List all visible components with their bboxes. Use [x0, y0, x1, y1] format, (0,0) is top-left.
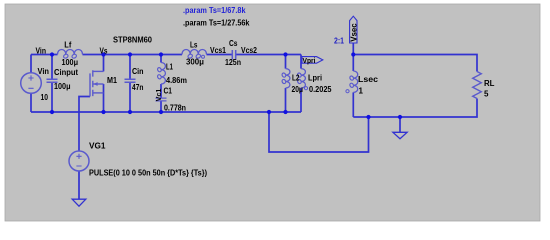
value 20u of L2	[292, 85, 304, 94]
svg-text:Vc1: Vc1	[154, 88, 163, 101]
svg-text:2:1: 2:1	[334, 37, 344, 46]
label L1	[166, 63, 173, 72]
label L2	[292, 74, 300, 83]
svg-text:Vin: Vin	[38, 67, 50, 76]
voltage source Vin	[21, 73, 42, 94]
svg-text:L2: L2	[292, 74, 300, 83]
resistor RL	[473, 72, 482, 99]
junction secondary ground	[398, 115, 402, 119]
node label Vcs1	[210, 46, 226, 55]
inductor L2	[281, 69, 290, 88]
wire secondary top rail	[353, 55, 477, 72]
wire Cin bottom lead	[129, 82, 131, 112]
junction L1 top	[159, 52, 163, 56]
wire step link primary gnd to secondary	[269, 112, 369, 152]
net flag Vpri	[302, 57, 323, 64]
label Lsec	[358, 75, 379, 84]
net flag Vsec	[350, 16, 357, 43]
junction C1 bottom	[159, 110, 163, 114]
value 1 of Lsec	[359, 87, 364, 96]
svg-text:Vin: Vin	[36, 47, 47, 56]
svg-text:.param Ts=1/27.56k: .param Ts=1/27.56k	[183, 18, 250, 27]
ground secondary	[393, 132, 407, 138]
junction M1 source bottom	[101, 110, 105, 114]
junction Cinput bottom	[50, 110, 54, 114]
wire ground stub secondary	[399, 117, 401, 132]
label VG1	[89, 141, 106, 150]
value 125n of Cs	[225, 58, 241, 67]
wire Vin source top lead	[30, 55, 32, 73]
wire C1 bottom lead	[160, 101, 162, 112]
label Lf	[64, 40, 71, 49]
node label Vc1 (rotated)	[154, 88, 163, 101]
wire M1 source lead	[103, 84, 105, 112]
label 2:1 turns ratio	[334, 37, 344, 46]
label Cinput	[54, 68, 78, 77]
junction L2 top	[283, 52, 287, 56]
value 5 of RL	[484, 89, 489, 98]
svg-text:Cin: Cin	[132, 67, 144, 76]
inductor L1	[157, 63, 166, 85]
svg-text:Cs: Cs	[229, 39, 238, 48]
inductor Lsec	[349, 71, 358, 92]
value 100u of Cinput	[54, 82, 71, 91]
wire top rail Vin to Lf	[31, 54, 58, 56]
wire Lsec bottom lead	[352, 92, 354, 117]
wire top rail Ls to Cs (node Vcs1)	[207, 54, 233, 56]
label Vpri	[303, 56, 316, 65]
svg-text:C1: C1	[164, 86, 173, 95]
value 300u of Ls	[186, 57, 204, 66]
label M1	[107, 76, 117, 85]
label C1	[164, 86, 173, 95]
wire L2 top lead	[285, 55, 287, 69]
svg-text:0.778n: 0.778n	[164, 103, 186, 112]
value 10 of Vin	[41, 93, 49, 102]
spice directive .param Ts=1/27.56k	[183, 18, 250, 27]
value 0.778n of C1	[164, 103, 186, 112]
wire L1 to C1	[160, 84, 162, 98]
svg-text:.param Ts=1/67.8k: .param Ts=1/67.8k	[183, 6, 246, 15]
wire Cinput bottom lead	[51, 82, 53, 112]
capacitor Cin	[125, 79, 136, 82]
junction Lsec top	[351, 52, 355, 56]
svg-text:20μ: 20μ	[292, 85, 304, 94]
svg-text:Vpri: Vpri	[303, 56, 316, 65]
junction node Vs at M1 drain	[101, 52, 105, 56]
voltage source VG1	[69, 151, 89, 171]
spice directive .param Ts=1/67.8k	[183, 6, 246, 15]
label Lpri	[308, 74, 322, 83]
junction Cin top	[128, 52, 132, 56]
svg-text:Ls: Ls	[190, 41, 198, 50]
value 100u of Lf	[62, 58, 79, 67]
label Cin	[132, 67, 144, 76]
phase dot of Lpri	[304, 87, 307, 90]
label RL	[484, 79, 495, 88]
svg-text:RL: RL	[484, 79, 495, 88]
inductor Lpri	[297, 69, 306, 88]
junction L2 bottom	[283, 110, 287, 114]
junction Cin bottom	[128, 110, 132, 114]
wire Vin source bottom lead	[30, 94, 32, 113]
node label Vin	[36, 47, 47, 56]
node label Vcs2	[241, 46, 257, 55]
wire M1 drain lead	[103, 55, 105, 72]
value 47n of Cin	[132, 83, 144, 92]
junction secondary link	[366, 115, 370, 119]
transistor M1 (NMOS)	[90, 70, 104, 96]
svg-text:125n: 125n	[225, 58, 241, 67]
svg-text:5: 5	[484, 89, 489, 98]
capacitor Cinput	[47, 79, 58, 82]
wire bottom rail left circuit	[31, 111, 301, 113]
wire top rail Cs to transformer (node Vcs2)	[236, 54, 301, 56]
capacitor C1	[156, 98, 167, 101]
svg-text:PULSE(0 10 0 50n 50n {D*Ts} {T: PULSE(0 10 0 50n 50n {D*Ts} {Ts})	[89, 168, 207, 177]
value 4.86m of L1	[166, 76, 187, 85]
value PULSE of VG1	[89, 168, 207, 177]
value 0.2025 of Lpri	[309, 85, 332, 94]
label Vsec (rotated)	[349, 23, 358, 42]
svg-text:100μ: 100μ	[54, 82, 71, 91]
wire Lpri top lead	[300, 55, 302, 69]
svg-text:Vcs1: Vcs1	[210, 46, 226, 55]
wire L1 top lead	[160, 55, 162, 63]
svg-text:1: 1	[359, 87, 364, 96]
wire Lsec top lead	[352, 55, 354, 72]
svg-text:Vsec: Vsec	[349, 23, 358, 42]
svg-text:47n: 47n	[132, 83, 144, 92]
label Vin source	[38, 67, 50, 76]
wire Lpri bottom lead	[300, 88, 302, 112]
label Ls	[190, 41, 198, 50]
svg-text:0.2025: 0.2025	[309, 85, 332, 94]
svg-text:100μ: 100μ	[62, 58, 79, 67]
wire secondary bottom rail	[353, 99, 477, 118]
wire Vsec flag stem	[352, 43, 354, 55]
wire VG1 to ground	[78, 171, 80, 199]
svg-text:Cinput: Cinput	[54, 68, 78, 77]
svg-text:STP8NM60: STP8NM60	[113, 35, 153, 44]
label Cs	[229, 39, 238, 48]
wire Cin top lead	[129, 55, 131, 80]
svg-text:Vcs2: Vcs2	[241, 46, 257, 55]
junction step wire	[267, 110, 271, 114]
inductor Ls	[182, 49, 207, 58]
node label Vs	[100, 47, 108, 56]
wire Cinput top lead	[51, 55, 53, 80]
label STP8NM60	[113, 35, 153, 44]
wire L2 bottom lead	[285, 88, 287, 112]
svg-text:L1: L1	[166, 63, 173, 72]
svg-text:300μ: 300μ	[186, 57, 204, 66]
phase dot of Ls	[202, 55, 205, 58]
svg-text:Lf: Lf	[64, 40, 71, 49]
svg-text:4.86m: 4.86m	[166, 76, 187, 85]
capacitor Cs	[232, 50, 235, 60]
svg-text:M1: M1	[107, 76, 117, 85]
inductor Lf	[58, 49, 83, 58]
svg-text:10: 10	[41, 93, 49, 102]
ground below VG1	[72, 199, 86, 206]
svg-text:Lsec: Lsec	[358, 75, 379, 84]
junction node Vin/Cinput top	[50, 52, 54, 56]
svg-text:Vs: Vs	[100, 47, 108, 56]
svg-text:VG1: VG1	[89, 141, 106, 150]
wire top rail Lf to Ls (node Vs)	[83, 54, 183, 56]
wire M1 gate to VG1	[79, 97, 90, 152]
phase dot of Lsec	[346, 90, 349, 93]
svg-text:Lpri: Lpri	[308, 74, 322, 83]
